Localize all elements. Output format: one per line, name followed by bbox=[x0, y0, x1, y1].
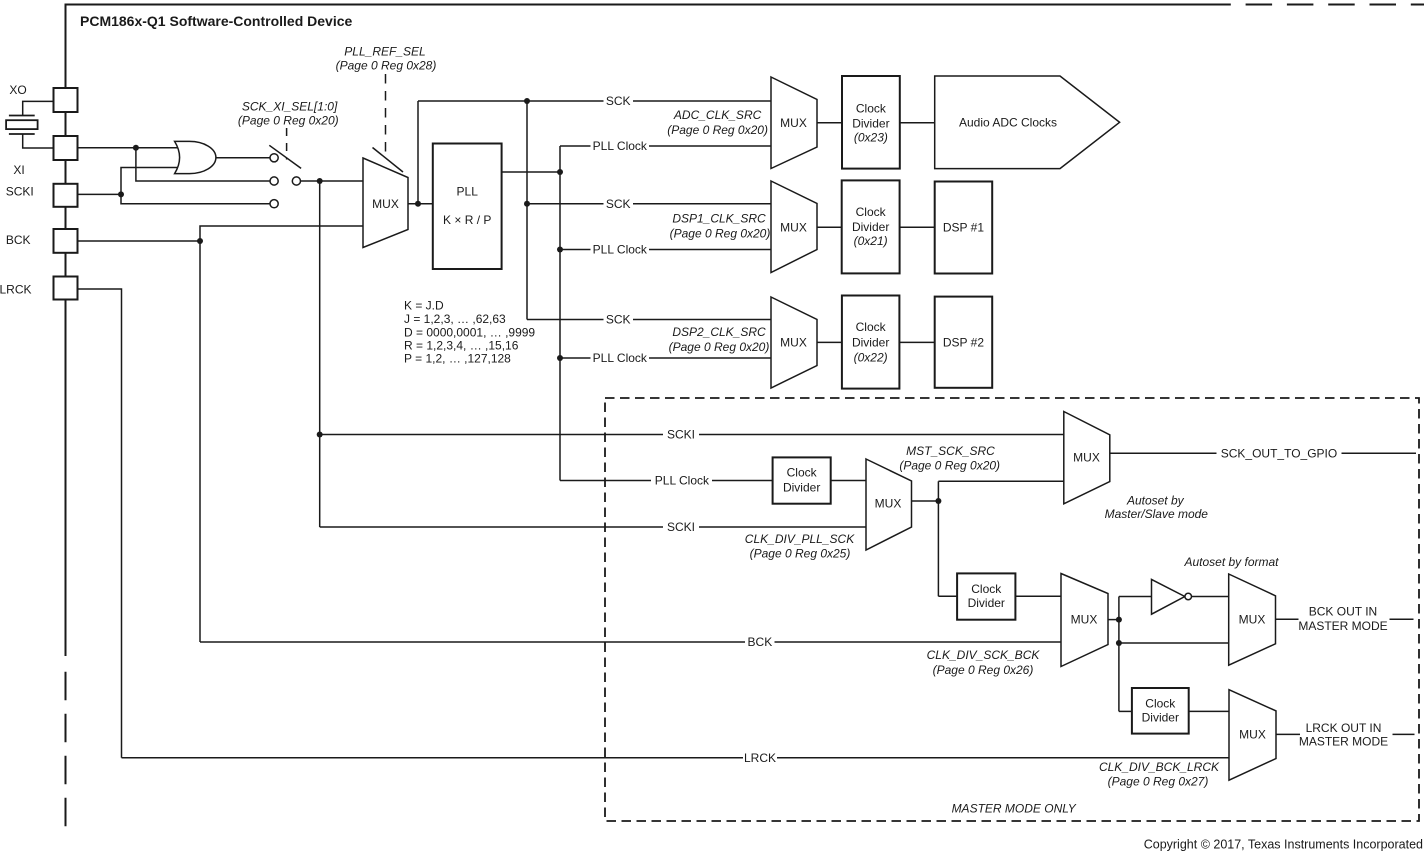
wire SCKI branch to switch bottom contact bbox=[121, 194, 270, 203]
switch pole contact bbox=[292, 177, 300, 185]
wire XI to OR gate top input bbox=[78, 147, 181, 149]
svg-text:(Page 0 Reg 0x26): (Page 0 Reg 0x26) bbox=[933, 663, 1034, 677]
svg-text:Divider: Divider bbox=[1142, 711, 1179, 725]
label MASTER MODE (BCK) bbox=[1298, 619, 1387, 633]
wire SCK tap vertical bbox=[417, 101, 419, 204]
crystal X1 bbox=[6, 116, 37, 135]
svg-text:MUX: MUX bbox=[780, 116, 807, 130]
wire BCK node vertical bbox=[1118, 597, 1120, 712]
label (Page 0 Reg 0x20) MST bbox=[899, 459, 1000, 473]
title PCM186x-Q1 Software-Controlled Device bbox=[80, 13, 353, 29]
label (Page 0 Reg 0x28) bbox=[336, 59, 437, 73]
clock divider CLK_DIV_PLL_SCK bbox=[773, 457, 831, 503]
svg-text:Clock: Clock bbox=[787, 465, 818, 479]
svg-text:Divider: Divider bbox=[852, 116, 889, 130]
label SCKI (master lower) bbox=[667, 520, 695, 534]
svg-text:PLL Clock: PLL Clock bbox=[593, 243, 648, 257]
OR gate bbox=[175, 141, 216, 173]
clock divider 0x23 bbox=[842, 76, 900, 169]
wire BCK vertical to master box bbox=[199, 241, 201, 642]
label ADC_CLK_SRC bbox=[673, 108, 762, 122]
switch contact top bbox=[270, 154, 278, 162]
svg-text:K = J.D: K = J.D bbox=[404, 299, 444, 313]
wire node direct to BCK out mux bbox=[1119, 642, 1229, 644]
svg-text:PLL Clock: PLL Clock bbox=[655, 474, 710, 488]
label DSP2_CLK_SRC bbox=[672, 325, 766, 339]
mux U1 select tick bbox=[373, 148, 404, 173]
wire SCKI to master SCK mux bbox=[320, 434, 1064, 436]
DSP #2 block bbox=[935, 297, 993, 388]
label SCK (ADC) bbox=[606, 94, 631, 108]
svg-text:(Page 0 Reg 0x27): (Page 0 Reg 0x27) bbox=[1108, 775, 1209, 789]
label SCKI (master top) bbox=[667, 428, 695, 442]
wire SCK to DSP1 mux bbox=[527, 203, 771, 205]
svg-text:PLL: PLL bbox=[457, 184, 479, 198]
label (Page 0 Reg 0x25) bbox=[750, 547, 851, 561]
svg-text:Divider: Divider bbox=[783, 481, 820, 495]
junction SCK DSP1 bbox=[524, 201, 530, 207]
pin SCKI bbox=[54, 184, 78, 207]
svg-text:XI: XI bbox=[13, 163, 24, 177]
svg-text:MASTER MODE: MASTER MODE bbox=[1298, 619, 1387, 633]
label MASTER MODE (LRCK) bbox=[1299, 735, 1388, 749]
label (Page 0 Reg 0x27) bbox=[1108, 775, 1209, 789]
wire OR gate output to switch top contact bbox=[216, 157, 270, 159]
label CLK_DIV_BCK_LRCK bbox=[1099, 760, 1220, 774]
wire PLL Clock to ADC mux bbox=[560, 145, 771, 147]
device boundary (solid top and left) bbox=[66, 5, 1231, 657]
mux DSP2 clock source bbox=[771, 297, 817, 388]
wire SCK net vertical B bbox=[526, 101, 528, 320]
label CLK_DIV_SCK_BCK bbox=[927, 648, 1041, 662]
wire SCKI branch to OR gate bottom input bbox=[121, 168, 180, 195]
label SCK_XI_SEL[1:0] bbox=[242, 100, 338, 114]
junction SCK top bbox=[524, 98, 530, 104]
PLL coefficient note block bbox=[404, 299, 535, 366]
wire PLL Clock to DSP1 mux bbox=[560, 249, 771, 251]
svg-text:Autoset by format: Autoset by format bbox=[1183, 555, 1279, 569]
svg-text:Divider: Divider bbox=[968, 596, 1005, 610]
wire LRCK OUT bbox=[1276, 733, 1415, 735]
svg-text:MUX: MUX bbox=[1239, 613, 1266, 627]
wire SCKI distribution vertical bbox=[319, 181, 321, 527]
copyright note bbox=[1144, 838, 1423, 852]
wire XI branch to switch middle contact bbox=[136, 148, 270, 181]
svg-text:DSP #2: DSP #2 bbox=[943, 335, 984, 349]
inverter gate bbox=[1152, 579, 1192, 614]
wire mux2 output to node bbox=[912, 500, 939, 502]
svg-text:LRCK OUT IN: LRCK OUT IN bbox=[1306, 721, 1382, 735]
label SCKI bbox=[6, 185, 34, 199]
svg-text:(Page 0 Reg 0x20): (Page 0 Reg 0x20) bbox=[899, 459, 1000, 473]
svg-text:(0x23): (0x23) bbox=[854, 130, 888, 144]
svg-text:Autoset by: Autoset by bbox=[1126, 493, 1185, 507]
junction SCKI to master box bbox=[317, 432, 323, 438]
mux BCK out format select bbox=[1229, 574, 1276, 665]
wire DSP1 mux to divider bbox=[817, 226, 842, 228]
wire ADC mux to divider bbox=[817, 122, 842, 124]
wire node vertical bbox=[937, 481, 939, 596]
svg-text:Divider: Divider bbox=[852, 336, 889, 350]
svg-text:Divider: Divider bbox=[852, 220, 889, 234]
label XO bbox=[9, 83, 26, 97]
wire divider 0x23 to ADC clocks bbox=[900, 122, 935, 124]
label (Page 0 Reg 0x20) of SCK_XI_SEL bbox=[238, 114, 339, 128]
master mode only dashed box bbox=[605, 398, 1419, 821]
label Autoset by format bbox=[1183, 555, 1279, 569]
svg-text:MASTER MODE: MASTER MODE bbox=[1299, 735, 1388, 749]
label (Page 0 Reg 0x20) ADC bbox=[667, 123, 768, 137]
clock divider 0x21 bbox=[842, 180, 900, 273]
svg-text:SCKI: SCKI bbox=[6, 185, 34, 199]
label SCK_OUT_TO_GPIO bbox=[1221, 447, 1337, 461]
svg-text:DSP #1: DSP #1 bbox=[943, 221, 984, 235]
svg-text:D = 0000,0001, … ,9999: D = 0000,0001, … ,9999 bbox=[404, 325, 535, 339]
svg-text:Clock: Clock bbox=[856, 101, 887, 115]
Audio ADC Clocks pentagon bbox=[935, 76, 1120, 169]
svg-text:SCK_OUT_TO_GPIO: SCK_OUT_TO_GPIO bbox=[1221, 447, 1337, 461]
clock divider 0x22 bbox=[842, 296, 900, 389]
svg-text:MASTER MODE ONLY: MASTER MODE ONLY bbox=[952, 802, 1077, 816]
wire SCKI lower into master box bbox=[320, 526, 866, 528]
wire SCKI to junction bbox=[77, 193, 121, 195]
mux DSP1 clock source bbox=[771, 181, 817, 273]
junction PLL Clock entry bbox=[557, 169, 563, 175]
label LRCK bbox=[0, 283, 32, 297]
junction SCKI bbox=[118, 191, 124, 197]
junction node switch output bbox=[317, 178, 323, 184]
svg-text:SCKI: SCKI bbox=[667, 520, 695, 534]
wire inverter to BCK out mux bbox=[1192, 596, 1229, 598]
label (Page 0 Reg 0x20) DSP2 bbox=[669, 340, 770, 354]
label BCK bbox=[6, 233, 31, 247]
svg-text:LRCK: LRCK bbox=[744, 751, 776, 765]
label MASTER MODE ONLY bbox=[952, 802, 1077, 816]
wire XO to crystal bbox=[23, 101, 54, 115]
DSP #1 block bbox=[935, 182, 993, 274]
switch control dashed line bbox=[286, 128, 288, 160]
label PLL_REF_SEL bbox=[344, 45, 425, 59]
junction XI bbox=[133, 145, 139, 151]
svg-text:PLL Clock: PLL Clock bbox=[593, 139, 648, 153]
pin BCK bbox=[54, 229, 78, 253]
mux MST_SCK_SRC select bbox=[1064, 412, 1110, 504]
svg-text:BCK: BCK bbox=[748, 635, 773, 649]
label MST_SCK_SRC bbox=[906, 444, 995, 458]
label CLK_DIV_PLL_SCK bbox=[745, 532, 855, 546]
svg-text:ADC_CLK_SRC: ADC_CLK_SRC bbox=[673, 108, 762, 122]
junction PLL Clock DSP2 bbox=[557, 355, 563, 361]
wire PLL Clock to DSP2 mux bbox=[560, 357, 771, 359]
wire SCK_OUT_TO_GPIO bbox=[1110, 452, 1416, 454]
svg-text:MUX: MUX bbox=[875, 497, 902, 511]
wire BCK from pin bbox=[77, 240, 200, 242]
junction BCK out node bbox=[1116, 617, 1122, 623]
label Master/Slave mode bbox=[1105, 507, 1209, 521]
switch contact middle bbox=[270, 177, 278, 185]
svg-text:MUX: MUX bbox=[372, 197, 399, 211]
mux U1 PLL reference select bbox=[363, 158, 408, 248]
wire crystal to XI bbox=[23, 134, 54, 148]
svg-text:(0x22): (0x22) bbox=[854, 350, 888, 364]
wire divider 0x22 to DSP2 bbox=[899, 341, 934, 343]
svg-text:XO: XO bbox=[9, 83, 26, 97]
svg-text:CLK_DIV_SCK_BCK: CLK_DIV_SCK_BCK bbox=[927, 648, 1041, 662]
svg-text:Master/Slave mode: Master/Slave mode bbox=[1105, 507, 1209, 521]
junction BCK bbox=[197, 238, 203, 244]
svg-text:J = 1,2,3, … ,62,63: J = 1,2,3, … ,62,63 bbox=[404, 312, 506, 326]
svg-text:Audio ADC Clocks: Audio ADC Clocks bbox=[959, 116, 1057, 130]
svg-text:SCK: SCK bbox=[606, 197, 631, 211]
wire BCK OUT bbox=[1276, 618, 1414, 620]
PLL block bbox=[433, 144, 502, 270]
svg-text:MST_SCK_SRC: MST_SCK_SRC bbox=[906, 444, 995, 458]
svg-text:CLK_DIV_PLL_SCK: CLK_DIV_PLL_SCK bbox=[745, 532, 855, 546]
wire node to clock divider SCK_BCK bbox=[938, 595, 957, 597]
label PLL Clock (ADC) bbox=[593, 139, 648, 153]
wire divider to mux MST_SCK bbox=[831, 480, 866, 482]
svg-text:SCK_XI_SEL[1:0]: SCK_XI_SEL[1:0] bbox=[242, 100, 338, 114]
svg-text:BCK OUT IN: BCK OUT IN bbox=[1309, 604, 1377, 618]
junction PLL Clock DSP1 bbox=[557, 247, 563, 253]
svg-text:PLL_REF_SEL: PLL_REF_SEL bbox=[344, 45, 425, 59]
wire BCK branch to MUX U1 input bbox=[200, 226, 363, 241]
wire divider SCK_BCK to mux bbox=[1015, 595, 1061, 597]
pin XI bbox=[54, 136, 78, 160]
switch blade bbox=[269, 145, 301, 168]
mux LRCK out select bbox=[1229, 690, 1276, 781]
wire LRCK from pin down bbox=[78, 289, 122, 758]
svg-text:MUX: MUX bbox=[780, 221, 807, 235]
clock divider CLK_DIV_BCK_LRCK bbox=[1132, 688, 1189, 734]
svg-text:PCM186x-Q1 Software-Controlled: PCM186x-Q1 Software-Controlled Device bbox=[80, 13, 353, 29]
svg-text:MUX: MUX bbox=[1071, 613, 1098, 627]
label Autoset by bbox=[1126, 493, 1185, 507]
label PLL Clock (DSP2) bbox=[593, 351, 648, 365]
wire mux U1 output to PLL bbox=[408, 203, 433, 205]
label (Page 0 Reg 0x26) bbox=[933, 663, 1034, 677]
label PLL Clock (master) bbox=[655, 474, 710, 488]
switch contact bottom bbox=[270, 200, 278, 208]
svg-text:SCK: SCK bbox=[606, 94, 631, 108]
svg-text:Clock: Clock bbox=[1145, 696, 1176, 710]
device boundary left dashed continuation bbox=[65, 672, 67, 827]
junction MST SCK node bbox=[935, 498, 941, 504]
svg-text:PLL Clock: PLL Clock bbox=[593, 351, 648, 365]
svg-text:SCKI: SCKI bbox=[667, 428, 695, 442]
svg-text:MUX: MUX bbox=[1239, 728, 1266, 742]
svg-text:P = 1,2, … ,127,128: P = 1,2, … ,127,128 bbox=[404, 352, 511, 366]
wire node to SCK out mux bbox=[938, 480, 1063, 482]
svg-text:DSP1_CLK_SRC: DSP1_CLK_SRC bbox=[672, 212, 766, 226]
svg-text:(Page 0 Reg 0x20): (Page 0 Reg 0x20) bbox=[670, 227, 771, 241]
label BCK (master) bbox=[748, 635, 773, 649]
wire divider 0x21 to DSP1 bbox=[900, 226, 935, 228]
svg-text:LRCK: LRCK bbox=[0, 283, 32, 297]
junction SCK tap bbox=[415, 201, 421, 207]
wire divider BCK_LRCK to mux bbox=[1189, 710, 1229, 712]
svg-text:K × R / P: K × R / P bbox=[443, 213, 491, 227]
svg-text:(0x21): (0x21) bbox=[854, 234, 888, 248]
wire LRCK into master box bbox=[122, 757, 1230, 759]
clock divider CLK_DIV_SCK_BCK bbox=[957, 573, 1015, 619]
svg-text:Clock: Clock bbox=[856, 205, 887, 219]
pin LRCK bbox=[54, 277, 78, 300]
label SCK (DSP2) bbox=[606, 313, 631, 327]
wire PLL Clock into master box bbox=[560, 480, 773, 482]
svg-text:CLK_DIV_BCK_LRCK: CLK_DIV_BCK_LRCK bbox=[1099, 760, 1220, 774]
mux CLK_DIV_SCK_BCK select bbox=[1061, 574, 1108, 667]
label DSP1_CLK_SRC bbox=[672, 212, 766, 226]
device boundary top dashed continuation bbox=[1246, 4, 1424, 6]
PLL_REF_SEL control dashed line bbox=[385, 74, 387, 158]
wire PLL Clock net vertical C bbox=[559, 146, 561, 481]
mux CLK_DIV_PLL_SCK select bbox=[866, 459, 912, 550]
svg-text:SCK: SCK bbox=[606, 313, 631, 327]
label LRCK OUT IN bbox=[1306, 721, 1382, 735]
svg-text:R = 1,2,3,4, … ,15,16: R = 1,2,3,4, … ,15,16 bbox=[404, 339, 519, 353]
svg-text:DSP2_CLK_SRC: DSP2_CLK_SRC bbox=[672, 325, 766, 339]
wire node down to divider BCK_LRCK bbox=[1119, 710, 1132, 712]
wire BCK into master box bbox=[200, 641, 1061, 643]
label XI bbox=[13, 163, 24, 177]
svg-text:(Page 0 Reg 0x20): (Page 0 Reg 0x20) bbox=[667, 123, 768, 137]
wire switch pole to MUX U1 bbox=[301, 180, 364, 182]
label LRCK (master) bbox=[744, 751, 776, 765]
svg-text:BCK: BCK bbox=[6, 233, 31, 247]
label BCK OUT IN bbox=[1309, 604, 1377, 618]
label (Page 0 Reg 0x20) DSP1 bbox=[670, 227, 771, 241]
svg-text:MUX: MUX bbox=[1073, 451, 1100, 465]
wire DSP2 mux to divider bbox=[817, 341, 842, 343]
svg-text:(Page 0 Reg 0x25): (Page 0 Reg 0x25) bbox=[750, 547, 851, 561]
svg-text:(Page 0 Reg 0x28): (Page 0 Reg 0x28) bbox=[336, 59, 437, 73]
svg-text:Clock: Clock bbox=[971, 582, 1002, 596]
wire mux4 output to node bbox=[1108, 619, 1119, 621]
svg-text:Clock: Clock bbox=[856, 320, 887, 334]
junction BCK direct branch bbox=[1116, 640, 1122, 646]
svg-text:MUX: MUX bbox=[780, 336, 807, 350]
wire PLL output bbox=[502, 171, 560, 173]
wire node to inverter bbox=[1119, 596, 1152, 598]
svg-text:Copyright © 2017, Texas Instru: Copyright © 2017, Texas Instruments Inco… bbox=[1144, 838, 1423, 852]
wire SCK to DSP2 mux bbox=[527, 319, 771, 321]
pin XO bbox=[54, 88, 78, 112]
wire SCK to ADC mux bbox=[418, 100, 771, 102]
label PLL Clock (DSP1) bbox=[593, 243, 648, 257]
svg-text:(Page 0 Reg 0x20): (Page 0 Reg 0x20) bbox=[669, 340, 770, 354]
svg-text:(Page 0 Reg 0x20): (Page 0 Reg 0x20) bbox=[238, 114, 339, 128]
label SCK (DSP1) bbox=[606, 197, 631, 211]
mux ADC clock source bbox=[771, 77, 817, 169]
